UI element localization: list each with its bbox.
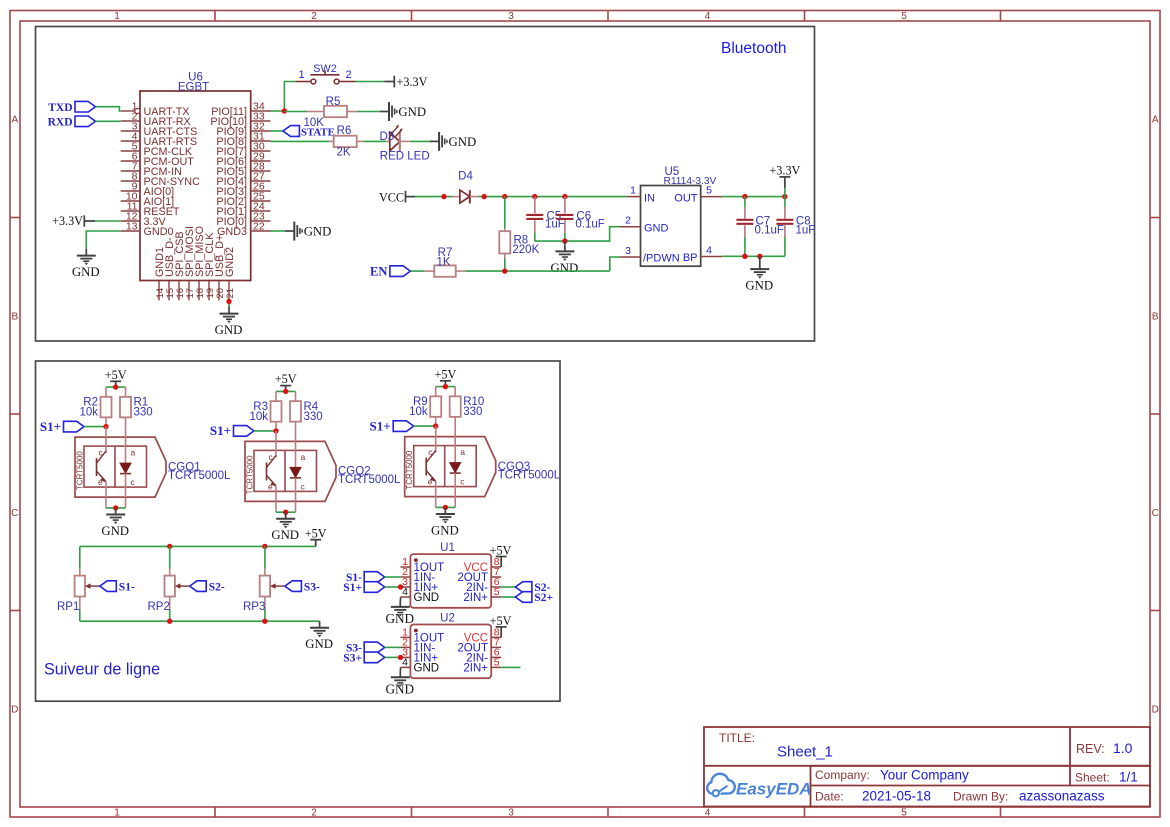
svg-text:2: 2 <box>311 808 317 819</box>
U6 pin 7 PCM-IN <box>121 170 140 172</box>
svg-text:1: 1 <box>114 808 120 819</box>
U6 pin 4 UART-RTS <box>121 140 140 142</box>
junction bottom rail CGQ3 <box>443 505 448 510</box>
junction at pin 21 <box>226 299 231 304</box>
svg-text:5: 5 <box>494 657 500 669</box>
U2 pin 5 2IN+ <box>491 666 501 668</box>
svg-text:C: C <box>1152 508 1159 519</box>
+5V net flag at U1 pin 8 <box>500 557 502 568</box>
+5V net flag at CGQ1 <box>115 381 117 387</box>
port S3+ to U2 pin 3 <box>364 652 385 663</box>
svg-text:+5V: +5V <box>490 543 512 557</box>
svg-text:D: D <box>11 705 18 716</box>
U6 pin 5 PCM-CLK <box>121 150 140 152</box>
resistor R7 <box>424 270 434 272</box>
svg-text:+5V: +5V <box>490 614 512 628</box>
svg-text:1K: 1K <box>436 256 450 268</box>
phototransistor of CGQ2 <box>275 431 277 458</box>
svg-text:10k: 10k <box>409 406 428 418</box>
+3.3V net flag at pin 12 <box>83 215 85 226</box>
svg-text:GND: GND <box>551 261 579 275</box>
svg-text:Drawn By:: Drawn By: <box>953 789 1008 803</box>
wire port to CGQ1 <box>84 426 106 428</box>
svg-text:GND: GND <box>101 524 129 538</box>
wire pin22 GND3 <box>271 230 286 232</box>
ground GND at potentiometer rail <box>319 621 321 627</box>
ground GND below BP <box>759 256 761 262</box>
U6 pin 26 PIO[3] <box>251 190 271 192</box>
svg-text:+5V: +5V <box>305 526 327 540</box>
U6 pin 18 SPI_MISO <box>198 281 200 301</box>
junction port node CGQ3 <box>433 423 438 428</box>
phototransistor of CGQ3 <box>435 426 437 453</box>
wire pin13 GND0 down <box>86 231 120 249</box>
svg-text:2K: 2K <box>336 146 350 158</box>
svg-text:GND: GND <box>745 279 773 293</box>
U6 pin 28 PIO[5] <box>251 170 271 172</box>
U6 pin 25 PIO[2] <box>251 200 271 202</box>
ground GND at U2 pin 4 <box>400 667 402 671</box>
IC U5 R1114-3.3V body <box>641 186 701 267</box>
svg-text:A: A <box>1152 115 1159 126</box>
junction C7 top <box>742 194 747 199</box>
svg-text:10k: 10k <box>249 411 268 423</box>
U2 pin 4 GND <box>401 666 411 668</box>
U1 pin 7 2OUT <box>491 576 501 578</box>
svg-text:5: 5 <box>901 808 907 819</box>
wire OUT rail <box>722 196 785 198</box>
U2 pin1 marker <box>414 629 418 633</box>
LED D3 <box>386 140 390 142</box>
U6 pin 19 SPI_CLK <box>208 281 210 301</box>
svg-text:3: 3 <box>625 245 631 257</box>
svg-text:GND: GND <box>386 611 415 626</box>
port S2+ at U1 pin 5 <box>501 596 515 598</box>
U6 pin 21 GND2 <box>228 281 230 301</box>
wire pin32 to STATE <box>271 130 284 132</box>
svg-text:+5V: +5V <box>105 368 127 382</box>
junction GND stem <box>757 254 762 259</box>
phototransistor of CGQ1 <box>105 427 107 454</box>
svg-text:C: C <box>11 508 18 519</box>
U6 pin 17 SPI_MOSI <box>188 281 190 301</box>
Suiveur de ligne section box <box>36 361 561 701</box>
potentiometer RP1 <box>79 546 81 568</box>
svg-text:EN: EN <box>370 264 387 278</box>
U2 pin 1 1OUT <box>401 636 411 638</box>
port STATE <box>283 126 299 137</box>
svg-text:22: 22 <box>253 221 265 233</box>
+5V net flag at potentiometer rail <box>315 540 317 547</box>
U5 pin 5 OUT <box>701 196 723 198</box>
+5V net flag at CGQ3 <box>444 381 446 387</box>
resistor R5 <box>307 111 323 113</box>
svg-text:D3: D3 <box>380 131 395 143</box>
U2 pin 7 2OUT <box>491 646 501 648</box>
svg-text:5: 5 <box>494 586 500 598</box>
svg-text:c: c <box>460 477 465 487</box>
ground GND at pin 13 <box>85 249 87 255</box>
wire TXD to pin1 <box>96 107 121 111</box>
U6 pin 12 3.3V <box>121 220 140 222</box>
wire VCC to D4 <box>415 196 452 198</box>
junction pin34 node <box>282 108 287 113</box>
svg-text:TCRT5000: TCRT5000 <box>76 451 85 491</box>
svg-text:Company:: Company: <box>815 768 870 782</box>
svg-text:RED LED: RED LED <box>380 150 430 162</box>
U6 pin 34 PIO[11] <box>251 110 271 112</box>
U6 pin 8 PCN-SYNC <box>121 180 140 182</box>
U6 pin 24 PIO[1] <box>251 210 271 212</box>
wire SW2 to +3.3V <box>356 81 385 83</box>
svg-text:4: 4 <box>705 11 711 22</box>
svg-text:2: 2 <box>625 215 631 227</box>
ground GND below CGQ2 <box>285 512 287 518</box>
+3.3V net flag at SW2 <box>385 81 395 83</box>
svg-text:IN: IN <box>644 192 655 204</box>
svg-text:1uF: 1uF <box>545 219 565 231</box>
junction RP2 bottom <box>167 619 172 624</box>
wire EN to R7 <box>410 270 424 272</box>
U1 pin 8 VCC <box>491 566 501 568</box>
svg-text:S3+: S3+ <box>343 652 362 664</box>
potentiometer RP3 <box>264 546 266 568</box>
port TXD <box>75 101 96 112</box>
diode D4 <box>452 196 460 198</box>
svg-text:10k: 10k <box>79 407 98 419</box>
svg-text:R6: R6 <box>337 125 352 137</box>
svg-text:Sheet_1: Sheet_1 <box>777 744 833 761</box>
U2 pin 6 2IN- <box>491 656 501 658</box>
ground GND after R5 <box>380 111 389 113</box>
svg-text:330: 330 <box>463 406 482 418</box>
wire top rail CGQ1 <box>106 386 126 388</box>
U2 pin 3 1IN+ <box>401 656 411 658</box>
wire bottom rail CGQ2 <box>275 501 277 512</box>
U5 pin 1 IN <box>627 196 641 198</box>
wire port to CGQ3 <box>414 425 436 427</box>
svg-text:GND: GND <box>644 222 669 234</box>
svg-text:U1: U1 <box>440 542 455 554</box>
svg-text:+3.3V: +3.3V <box>769 164 800 178</box>
svg-text:21: 21 <box>225 288 236 299</box>
port EN <box>390 266 411 277</box>
optocoupler CGQ2 TCRT5000L outline <box>245 441 336 501</box>
U6 pin 29 PIO[6] <box>251 160 271 162</box>
svg-text:GND: GND <box>215 323 243 337</box>
junction C5 top <box>532 194 537 199</box>
svg-text:GND: GND <box>414 662 440 674</box>
port S1+ at CGQ3 <box>393 421 414 432</box>
junction R8 top <box>502 194 507 199</box>
svg-text:TCRT5000L: TCRT5000L <box>498 469 561 481</box>
ground GND below CGQ1 <box>115 508 117 514</box>
svg-text:GND0: GND0 <box>144 226 174 238</box>
svg-text:GND: GND <box>414 592 440 604</box>
svg-text:GND: GND <box>449 135 477 149</box>
svg-text:330: 330 <box>134 407 153 419</box>
port S1+ at CGQ1 <box>64 421 85 432</box>
svg-text:S3-: S3- <box>304 581 320 593</box>
port S1+ at CGQ2 <box>234 426 255 437</box>
U1 pin 4 GND <box>401 596 411 598</box>
IR LED of CGQ3 <box>454 426 456 463</box>
svg-text:TCRT5000: TCRT5000 <box>405 450 414 490</box>
U1 pin 3 1IN+ <box>401 586 411 588</box>
svg-text:GND: GND <box>72 265 100 279</box>
resistor R3 <box>275 391 277 401</box>
U6 pin 2 UART-RX <box>121 120 140 122</box>
U5 pin 4 BP <box>701 256 723 258</box>
svg-text:S1-: S1- <box>119 581 135 593</box>
U6 pin 14 GND1 <box>158 281 160 301</box>
IC U1 body <box>410 554 491 608</box>
wire BP rail <box>722 255 785 257</box>
junction VCC node <box>441 194 446 199</box>
ground GND below CGQ3 <box>444 507 446 513</box>
junction bottom rail CGQ2 <box>283 510 288 515</box>
resistor R6 <box>329 140 334 142</box>
svg-text:2IN+: 2IN+ <box>463 592 488 604</box>
wire pin34 to SW2 <box>271 110 285 112</box>
U6 pin 27 PIO[4] <box>251 180 271 182</box>
svg-text:S1+: S1+ <box>40 419 61 434</box>
svg-text:EasyEDA: EasyEDA <box>736 780 812 799</box>
junction port node CGQ2 <box>273 428 278 433</box>
svg-text:Date:: Date: <box>815 789 844 803</box>
ground GND after D3 <box>430 140 439 142</box>
port S2- at U1 pin 6 <box>501 586 515 588</box>
svg-text:4: 4 <box>402 586 408 598</box>
resistor R4 <box>295 391 297 401</box>
ground GND at pin 22 <box>285 230 294 232</box>
U5 pin 2 GND <box>620 226 641 228</box>
wire RXD to pin2 <box>96 120 121 122</box>
svg-text:1: 1 <box>630 185 636 197</box>
U6 pin 22 GND3 <box>251 230 271 232</box>
junction RP3 bottom <box>262 619 267 624</box>
svg-text:Sheet:: Sheet: <box>1075 771 1110 785</box>
U1 pin 5 2IN+ <box>491 596 501 598</box>
U1 pin 2 1IN- <box>401 576 411 578</box>
svg-text:+3.3V: +3.3V <box>397 75 428 89</box>
svg-text:+5V: +5V <box>275 372 297 386</box>
svg-text:a: a <box>301 452 306 462</box>
wire pin21 GND2 down <box>228 300 230 307</box>
U6 pin 3 UART-CTS <box>121 130 140 132</box>
svg-text:4: 4 <box>706 244 712 256</box>
U2 pin 2 1IN- <box>401 646 411 648</box>
U6 pin 30 PIO[7] <box>251 150 271 152</box>
resistor R9 <box>435 387 437 397</box>
port S1- at RP1 <box>100 581 117 592</box>
svg-text:S1+: S1+ <box>210 423 231 438</box>
svg-text:GND: GND <box>431 523 459 537</box>
svg-text:4: 4 <box>705 808 711 819</box>
port S1- to U1 pin 2 <box>364 572 385 583</box>
IR LED of CGQ2 <box>295 431 297 468</box>
wire D4 to U5 IN <box>479 196 628 198</box>
RP3 wiper arrow <box>273 585 285 587</box>
resistor R2 <box>105 387 107 397</box>
switch SW2 <box>295 81 311 83</box>
wire top rail CGQ2 <box>276 390 296 392</box>
svg-text:OUT: OUT <box>674 192 698 204</box>
svg-text:+5V: +5V <box>435 367 457 381</box>
wire D3 to GND <box>410 140 430 142</box>
U6 pin 23 PIO[0] <box>251 220 271 222</box>
svg-text:TCRT5000L: TCRT5000L <box>168 470 231 482</box>
U6 pin 1 UART-TX <box>121 110 135 112</box>
svg-text:4: 4 <box>402 657 408 669</box>
svg-text:A: A <box>11 115 18 126</box>
svg-text:RP3: RP3 <box>243 601 265 613</box>
svg-text:1: 1 <box>114 11 120 22</box>
svg-text:RP1: RP1 <box>57 601 79 613</box>
svg-text:1uF: 1uF <box>796 224 816 236</box>
port S3- at RP3 <box>285 581 302 592</box>
+3.3V net flag at OUT <box>784 187 786 197</box>
junction U2 pin 3 <box>398 655 403 660</box>
potentiometer RP2 <box>169 546 171 568</box>
svg-text:S1+: S1+ <box>343 582 362 594</box>
U2 pin 8 VCC <box>491 636 501 638</box>
optocoupler CGQ3 TCRT5000L outline <box>405 437 496 497</box>
svg-text:2021-05-18: 2021-05-18 <box>862 789 931 804</box>
svg-text:STATE: STATE <box>301 127 335 139</box>
junction RP3 top <box>262 544 267 549</box>
svg-text:330: 330 <box>304 411 323 423</box>
svg-text:RXD: RXD <box>48 117 73 129</box>
svg-text:GND: GND <box>305 637 333 651</box>
svg-text:SW2: SW2 <box>313 63 336 75</box>
svg-text:B: B <box>11 312 18 323</box>
optocoupler CGQ1 TCRT5000L outline <box>75 437 166 497</box>
svg-text:TITLE:: TITLE: <box>719 731 755 745</box>
wire +3.3V to pin 12 <box>95 220 121 222</box>
svg-text:D4: D4 <box>458 171 473 183</box>
svg-text:Bluetooth: Bluetooth <box>721 40 787 57</box>
capacitor C8 <box>784 197 786 207</box>
svg-text:azassonazass: azassonazass <box>1019 789 1105 804</box>
svg-text:0.1uF: 0.1uF <box>755 224 784 236</box>
U1 pin1 marker <box>414 558 418 562</box>
U6 pin 9 AIO[0] <box>121 190 140 192</box>
svg-text:2: 2 <box>345 69 351 81</box>
wire bottom rail CGQ3 <box>435 497 437 508</box>
U6 pin 32 PIO[9] <box>251 130 271 132</box>
svg-text:BP: BP <box>683 252 698 264</box>
IC U6 EGBT body <box>140 91 251 281</box>
svg-text:1: 1 <box>298 69 304 81</box>
+5V net flag at U2 pin 8 <box>500 627 502 638</box>
U5 pin 3 /PDWN <box>620 256 641 258</box>
wire R5 to GND <box>358 111 380 113</box>
junction C6 bottom <box>562 238 567 243</box>
wire bottom rail CGQ1 <box>105 497 107 508</box>
capacitor C6 <box>564 197 566 214</box>
port RXD <box>75 116 96 127</box>
wire bottom rail potentiometers <box>80 620 320 622</box>
junction top rail CGQ2 <box>283 389 288 394</box>
U6 pin 13 GND0 <box>121 230 140 232</box>
svg-text:0.1uF: 0.1uF <box>575 219 604 231</box>
wire +5V rail for potentiometers <box>80 545 316 547</box>
svg-text:Your Company: Your Company <box>880 768 969 783</box>
svg-text:3: 3 <box>508 11 514 22</box>
svg-text:U2: U2 <box>440 612 455 624</box>
U6 pin 31 PIO[8] <box>251 140 271 142</box>
svg-text:1.0: 1.0 <box>1113 740 1133 756</box>
svg-text:/PDWN: /PDWN <box>643 253 680 265</box>
svg-text:+3.3V: +3.3V <box>52 214 83 228</box>
junction bottom rail CGQ1 <box>113 505 118 510</box>
wire cap bottom rail <box>535 227 620 241</box>
svg-text:GND2: GND2 <box>224 247 236 277</box>
port S2- at RP2 <box>190 581 207 592</box>
svg-text:S2-: S2- <box>209 581 225 593</box>
svg-text:TCRT5000: TCRT5000 <box>246 455 255 495</box>
svg-text:RP2: RP2 <box>148 601 170 613</box>
svg-text:REV:: REV: <box>1076 742 1105 756</box>
svg-text:GND: GND <box>304 225 332 239</box>
U6 pin 10 AIO[1] <box>121 200 140 202</box>
svg-text:EGBT: EGBT <box>178 82 209 94</box>
U6 pin 20 USB_D+ <box>218 281 220 301</box>
junction C8 top <box>782 194 787 199</box>
U1 pin 1 1OUT <box>401 566 411 568</box>
wire port to CGQ2 <box>254 430 276 432</box>
wire R6 to D3 <box>364 140 387 142</box>
wire node to R5 <box>284 111 307 113</box>
junction top rail CGQ3 <box>443 384 448 389</box>
junction U1 pin 3 <box>398 584 403 589</box>
resistor R10 <box>454 387 456 397</box>
svg-text:GND: GND <box>271 528 299 542</box>
svg-text:TCRT5000L: TCRT5000L <box>338 474 401 486</box>
junction C7 bottom <box>742 254 747 259</box>
ground GND at U1 pin 4 <box>400 597 402 601</box>
svg-text:3: 3 <box>508 808 514 819</box>
wire R7 to /PDWN <box>466 270 610 272</box>
junction RP2 top <box>167 544 172 549</box>
svg-text:D: D <box>1152 705 1159 716</box>
Bluetooth section box <box>36 27 815 342</box>
EasyEDA logo <box>707 774 735 797</box>
port S3- to U2 pin 2 <box>364 642 385 653</box>
svg-text:S1+: S1+ <box>370 418 391 433</box>
RP2 wiper arrow <box>178 585 190 587</box>
ground GND under U6 <box>228 307 230 313</box>
svg-text:5: 5 <box>706 185 712 197</box>
capacitor C5 <box>534 197 536 214</box>
junction R8 bottom <box>502 268 507 273</box>
svg-text:2: 2 <box>311 11 317 22</box>
U6 pin 33 PIO[10] <box>251 120 271 122</box>
port S1+ to U1 pin 3 <box>364 582 385 593</box>
wire top rail CGQ3 <box>436 386 456 388</box>
svg-text:R5: R5 <box>326 96 341 108</box>
svg-text:a: a <box>460 447 465 457</box>
svg-text:GND: GND <box>398 105 426 119</box>
U1 pin 6 2IN- <box>491 586 501 588</box>
title block <box>704 727 1150 807</box>
svg-text:a: a <box>131 448 136 458</box>
IC U2 body <box>410 625 491 679</box>
capacitor C7 <box>744 197 746 207</box>
junction top rail CGQ1 <box>113 384 118 389</box>
svg-text:B: B <box>1152 312 1159 323</box>
